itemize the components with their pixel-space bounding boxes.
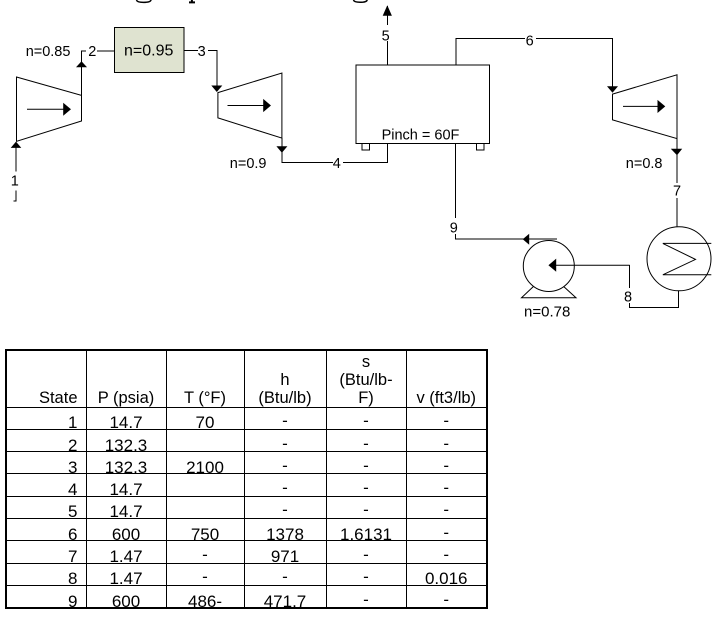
node 8 label [623, 288, 634, 305]
svg-text:Pinch = 60F: Pinch = 60F [382, 128, 460, 144]
node 4 label [333, 153, 343, 172]
wire turbine to condenser (state 7) [676, 139, 678, 227]
node 7 label [672, 183, 683, 200]
combustor box n=0.95 [115, 28, 185, 73]
gas turbine T1 [218, 73, 282, 138]
title descender fragment g1 [137, 0, 152, 2]
wire compressor outlet to combustor (state 2) [82, 51, 115, 95]
svg-text:n=0.78: n=0.78 [524, 304, 570, 321]
svg-text:n=0.8: n=0.8 [626, 156, 663, 172]
svg-text:n=0.9: n=0.9 [230, 156, 267, 172]
svg-text:2: 2 [88, 44, 96, 60]
arrowhead inlet [11, 142, 22, 148]
svg-text:1: 1 [11, 174, 19, 190]
svg-text:n=0.85: n=0.85 [26, 44, 71, 60]
HRSG bottom tab right [477, 144, 485, 151]
condenser [647, 227, 711, 291]
pump inlet arrow [549, 260, 630, 271]
svg-text:5: 5 [382, 28, 390, 44]
pump P1 [523, 241, 574, 292]
title descender fragment p [189, 0, 195, 2]
node 9 label [448, 218, 460, 236]
wire turbine exhaust to HRSG (state 4) [282, 138, 387, 162]
svg-text:7: 7 [673, 184, 681, 200]
HRSG box [356, 65, 490, 144]
arrowhead wire 5 [383, 5, 392, 16]
HRSG bottom tab left [362, 144, 370, 151]
arrowhead wire 4 [276, 146, 287, 153]
node 2 label [86, 42, 97, 60]
wire HRSG steam to steam turbine (state 6) [456, 39, 613, 92]
pump stand [522, 285, 577, 298]
node 5 label [381, 25, 392, 44]
svg-text:8: 8 [624, 289, 632, 305]
steam turbine T2 [613, 75, 678, 139]
condenser coil [663, 243, 712, 274]
compressor C1 arrow [27, 104, 70, 115]
svg-text:n=0.95: n=0.95 [124, 43, 173, 60]
turbine T1 arrow [228, 100, 271, 111]
arrowhead wire 3 [211, 86, 222, 93]
svg-text:4: 4 [333, 156, 341, 172]
svg-text:6: 6 [526, 34, 534, 50]
wire condenser to pump (state 8) [630, 265, 679, 308]
arrowhead wire 6 [607, 86, 618, 93]
node 3 label [198, 42, 208, 60]
svg-text:9: 9 [450, 220, 458, 236]
title descender fragment g2 [354, 0, 368, 2]
turbine T2 arrow [623, 101, 665, 112]
wire stub below 1 [13, 190, 16, 201]
wire stack exhaust (state 5) [386, 6, 388, 65]
arrowhead wire 7 [671, 149, 682, 156]
wire combustor to turbine (state 3) [184, 50, 217, 91]
compressor C1 [17, 77, 82, 141]
arrowhead wire 9 [523, 234, 530, 245]
arrowhead wire 2 [76, 61, 87, 67]
wire inlet state 1 [15, 142, 17, 171]
state table [5, 349, 488, 609]
wire pump to HRSG (state 9) [456, 144, 557, 240]
node 6 label [525, 31, 536, 50]
svg-text:3: 3 [198, 44, 206, 60]
